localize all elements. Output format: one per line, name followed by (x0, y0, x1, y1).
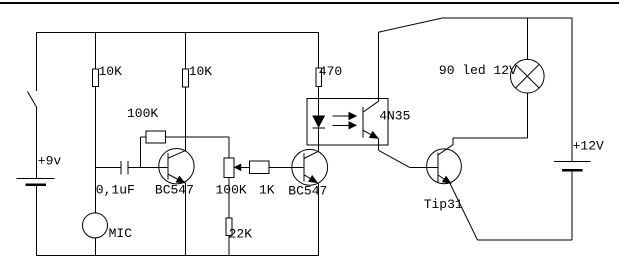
wire 10K R1 bottom lead to base node (95, 87, 97, 168)
resistor R2 10K (183, 69, 189, 87)
resistor R6 470 (316, 68, 322, 87)
svg-text:90 led 12V: 90 led 12V (439, 63, 517, 78)
svg-text:+9v: +9v (38, 153, 62, 168)
svg-text:BC547: BC547 (288, 184, 327, 199)
wire battery 12V bottom lead (571, 171, 573, 240)
wire lamp top vertical (526, 18, 528, 60)
wire capacitor to Q1 base (128, 166, 168, 168)
wire diagonal to Q3 base (378, 150, 409, 167)
potentiometer P1 100K (224, 158, 234, 178)
svg-text:BC547: BC547 (155, 183, 194, 198)
wire Q3 base horizontal (409, 166, 438, 168)
svg-text:Tip31: Tip31 (424, 197, 463, 212)
wire Q3 emitter diagonal (450, 183, 478, 240)
wire 100K R3 right lead to pot (166, 136, 230, 138)
resistor R3 100K (146, 131, 166, 143)
light arrow 1 (333, 115, 351, 117)
wire bottom right horizontal (478, 239, 572, 241)
phototransistor inside 4N35 (362, 107, 364, 138)
transistor Q2 BC547 (292, 149, 328, 185)
wire pot bottom lead (228, 178, 230, 219)
wire MIC bottom lead (95, 238, 97, 256)
wire 100K R3 left lead (140, 137, 146, 168)
wire Q1 collector vertical (185, 87, 187, 151)
svg-text:470: 470 (319, 64, 342, 79)
wire 470 top lead (317, 32, 319, 68)
wire bottom rail (36, 255, 319, 257)
transistor Q3 Tip31 (427, 149, 462, 184)
wire Q3 collector vertical (452, 138, 454, 145)
wire phototransistor emitter down (377, 139, 379, 151)
battery +9v (17, 178, 55, 180)
wire 22K bottom lead (228, 236, 230, 256)
switch S1 (28, 92, 37, 108)
wire 10K R2 top lead (185, 32, 187, 69)
wire phototransistor collector up (377, 32, 379, 101)
resistor R4 1K (250, 161, 270, 174)
svg-text:100K: 100K (127, 106, 158, 121)
svg-text:10K: 10K (99, 64, 123, 79)
microphone MIC (83, 213, 108, 238)
svg-text:100K: 100K (216, 183, 247, 198)
svg-text:0,1uF: 0,1uF (96, 183, 135, 198)
transistor Q1 BC547 (159, 149, 194, 184)
resistor R1 10K (93, 69, 99, 87)
lamp 90 led 12V (511, 59, 545, 93)
svg-text:+12V: +12V (573, 139, 604, 154)
wire 10K R1 top lead (95, 32, 97, 69)
LED inside 4N35 (313, 116, 324, 127)
wire left vertical upper (36, 32, 38, 91)
wire 1K to Q2 base (269, 166, 304, 168)
svg-text:MIC: MIC (109, 226, 133, 241)
wire pot top lead (228, 137, 230, 158)
wire top right rail (444, 17, 572, 19)
wire Q1 emitter vertical (185, 183, 187, 256)
wire left vertical middle (36, 108, 38, 179)
svg-text:22K: 22K (229, 226, 253, 241)
wire left vertical lower (36, 186, 38, 256)
wire lamp bottom horizontal (453, 137, 528, 139)
optocoupler U1 4N35 (307, 99, 388, 146)
wire MIC top lead (95, 167, 97, 213)
wire node to capacitor (96, 166, 122, 168)
wire Q2 emitter vertical (317, 183, 319, 256)
svg-text:4N35: 4N35 (379, 108, 410, 123)
resistor R5 22K (226, 218, 232, 236)
capacitor C1 0,1uF (120, 161, 122, 175)
wire battery 12V top lead (571, 18, 573, 162)
battery +12V (562, 169, 583, 172)
wire diagonal to top right rail (378, 18, 443, 32)
svg-text:10K: 10K (189, 64, 213, 79)
svg-text:1K: 1K (259, 183, 275, 198)
wire top rail (36, 32, 319, 34)
wire LED cathode to Q2 collector (317, 128, 319, 151)
wire 470 to LED anode (317, 87, 319, 117)
wire lamp bottom vertical (526, 93, 528, 138)
light arrow 2 (333, 124, 351, 126)
